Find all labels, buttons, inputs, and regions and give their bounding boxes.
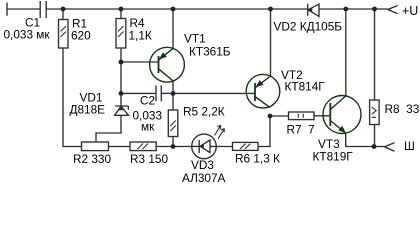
resistor R2 — [82, 142, 109, 151]
wire R6 to VT2 collector line — [258, 116, 270, 147]
wire VT3 emitter down and right — [346, 133, 374, 146]
wire VT2 emitter to rail — [270, 9, 272, 76]
junction node R5 bottom — [171, 144, 176, 149]
resistor R1 — [59, 20, 69, 49]
junction node VT2 collector/R7 — [268, 114, 273, 119]
wire R8 bottom lead — [374, 125, 376, 147]
svg-text:R6 1,3 К: R6 1,3 К — [235, 151, 280, 165]
svg-text:VT1: VT1 — [184, 31, 206, 45]
resistor R3 — [130, 142, 156, 151]
wire C1 to node — [47, 8, 63, 10]
transistor VT3 КТ819Г (NPN) — [323, 96, 361, 134]
wire R7 to VT3 base — [314, 115, 330, 117]
resistor R7 — [289, 112, 315, 120]
wire R8 top lead — [374, 9, 376, 100]
wire C2 to node — [162, 92, 173, 94]
svg-text:R5 2,2К: R5 2,2К — [183, 104, 225, 118]
junction node VT1 base tap — [119, 60, 124, 65]
wire VT2 collector node to R7 — [270, 115, 289, 117]
LED arrow 1 — [215, 125, 221, 135]
svg-text:0,033 мк: 0,033 мк — [4, 27, 51, 41]
wire VD3 to R6 — [216, 146, 232, 148]
wire node to Ш terminal — [374, 146, 385, 148]
resistor R5 — [168, 110, 178, 137]
svg-text:C2: C2 — [140, 93, 155, 107]
svg-text:R8 33: R8 33 — [385, 102, 420, 116]
svg-text:КТ814Г: КТ814Г — [285, 79, 326, 93]
wire R5 leads — [172, 93, 174, 146]
capacitor C2 — [156, 85, 161, 101]
svg-text:КТ361Б: КТ361Б — [189, 44, 231, 58]
wire node to VT2 base — [173, 92, 255, 94]
svg-text:Ш: Ш — [404, 139, 415, 153]
zener diode VD1 Д818Е — [115, 106, 129, 115]
diode VD2 КД105Б — [308, 4, 319, 17]
LED arrow 2 — [218, 129, 225, 139]
junction node VT1 emitter — [171, 7, 176, 12]
svg-text:R2 330: R2 330 — [73, 152, 111, 166]
transistor VT1 КТ361Б (PNP) — [150, 47, 185, 82]
LED VD3 АЛ307А — [192, 134, 217, 159]
svg-text:+U: +U — [402, 4, 418, 18]
wire VT3 collector to rail — [345, 9, 347, 96]
junction node R4 top — [119, 7, 124, 12]
wire left branch R1 line — [62, 9, 64, 20]
junction node R8 bottom / emitter — [372, 144, 377, 149]
wire VD1 to R2 tap — [96, 115, 121, 142]
svg-text:VD2 КД105Б: VD2 КД105Б — [274, 19, 343, 33]
junction node VT3 collector — [343, 7, 348, 12]
svg-text:мк: мк — [141, 119, 155, 133]
wire top rail left to C1 — [7, 8, 40, 10]
resistor R8 — [370, 100, 380, 125]
resistor R6 — [233, 142, 259, 150]
junction node R8 top — [372, 7, 377, 12]
wire top rail node to VD2 — [63, 8, 307, 10]
terminal Ш chevron — [385, 143, 395, 152]
svg-text:R3 150: R3 150 — [130, 152, 168, 166]
wire C2 left — [121, 92, 155, 94]
resistor R4 — [116, 19, 126, 49]
svg-text:VD3: VD3 — [191, 158, 214, 172]
wire VT1 collector to node — [172, 81, 174, 94]
svg-text:R7 7: R7 7 — [287, 122, 315, 136]
wire R4 down to VD1 — [120, 48, 122, 106]
svg-text:АЛ307А: АЛ307А — [182, 171, 226, 185]
junction node VT2 emitter — [268, 7, 273, 12]
svg-text:620: 620 — [71, 28, 91, 42]
wire R4 top lead — [120, 9, 122, 19]
junction node VD1/C2 — [119, 91, 124, 96]
terminal +U chevron — [388, 6, 398, 14]
capacitor C1 — [40, 1, 46, 18]
transistor VT2 КТ814Г (PNP) — [246, 74, 280, 108]
wire VT1 base — [121, 61, 159, 63]
wire VD2 to +U terminal — [319, 8, 388, 10]
wire R2 to R3 — [109, 146, 131, 148]
svg-text:1,1К: 1,1К — [129, 28, 152, 42]
wire R1 down to bottom bend — [63, 48, 82, 147]
wire VT1 emitter to rail — [172, 9, 174, 48]
junction node C1/R1 — [61, 7, 66, 12]
svg-text:Д818Е: Д818Е — [70, 102, 106, 116]
wire R3 to node — [156, 146, 192, 148]
svg-text:КТ819Г: КТ819Г — [313, 149, 354, 163]
input terminal top-left — [6, 3, 8, 16]
junction node VT1 collector/C2/R5 — [171, 91, 176, 96]
